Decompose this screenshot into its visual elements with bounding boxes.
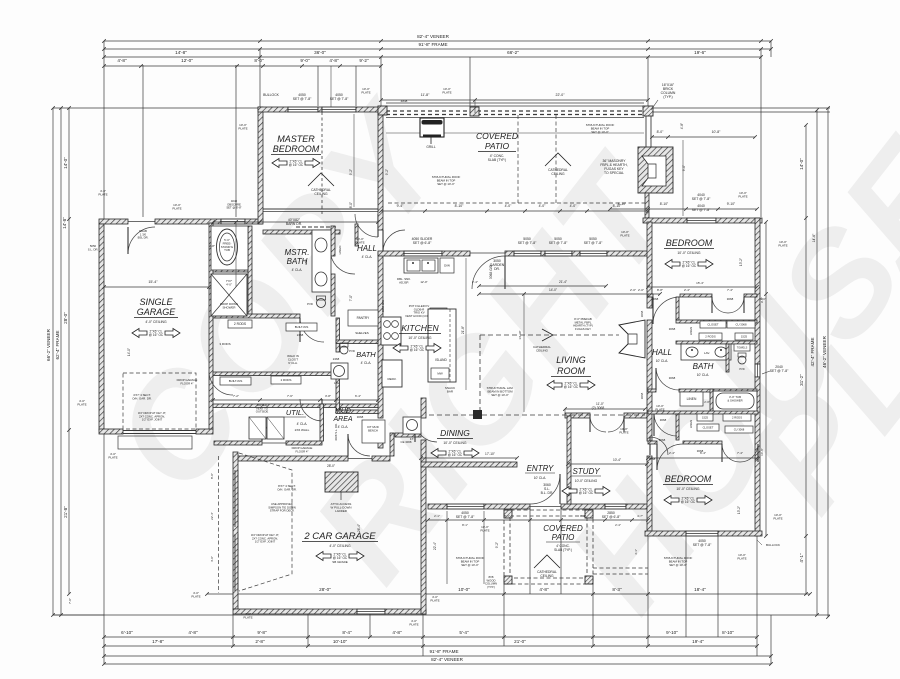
svg-text:SLAB (TYP.): SLAB (TYP.) [488, 158, 506, 162]
svg-text:S.L. DR.: S.L. DR. [88, 247, 99, 251]
svg-text:3 RODS: 3 RODS [219, 342, 230, 346]
svg-text:4'-8": 4'-8" [117, 58, 127, 63]
wall line: chimney chase east [650, 116, 652, 147]
svg-text:19'-4": 19'-4" [692, 639, 704, 644]
svg-text:8'-1": 8'-1" [504, 514, 510, 518]
window label 4050 front [456, 511, 475, 519]
extension line x260 [259, 49, 261, 107]
bottom dim line mid [102, 635, 759, 639]
svg-text:21'-8": 21'-8" [63, 506, 68, 518]
svg-text:BATH: BATH [356, 350, 376, 359]
plate label top left [172, 203, 181, 211]
plate label front [430, 595, 439, 603]
svg-text:PLATE: PLATE [108, 456, 117, 460]
top dim line 82'-4 veneer [102, 39, 773, 43]
ext stub b [330, 66, 332, 107]
svg-text:9'-2": 9'-2" [349, 169, 353, 175]
window label 5050 3 [584, 237, 603, 245]
wall: spine upper [378, 107, 383, 230]
ext line NE bedroom [682, 140, 684, 216]
wall: garage north seg2 [155, 219, 221, 224]
svg-text:4'-8": 4'-8" [329, 58, 339, 63]
bathtub: 3-0 tub and shower [713, 391, 757, 412]
svg-text:@ 16" OC: @ 16" OC [681, 500, 696, 504]
svg-text:@ 16" OC: @ 16" OC [564, 385, 579, 389]
door swing garden door [472, 256, 505, 289]
room label: 2 CAR GARAGE [302, 531, 378, 548]
svg-text:9'-10": 9'-10" [727, 202, 736, 206]
fireplace: living room prefab [619, 320, 645, 358]
svg-text:7'-6": 7'-6" [287, 394, 293, 398]
svg-text:2'-1": 2'-1" [434, 514, 440, 518]
svg-text:SET @ 10'-0": SET @ 10'-0" [461, 563, 478, 567]
barn door leaf dashed [296, 226, 336, 228]
svg-text:9'-2": 9'-2" [495, 542, 499, 548]
garden door head line [470, 252, 505, 254]
patio dashed joint 2 [555, 115, 557, 203]
svg-text:BULLOCK: BULLOCK [766, 543, 780, 547]
bathtub: master freestanding [211, 226, 248, 270]
room label: BEDROOM (SE) [663, 474, 713, 491]
svg-text:SET @ 10'-0": SET @ 10'-0" [669, 563, 686, 567]
svg-text:SET @ 7'-8": SET @ 7'-8" [330, 97, 349, 101]
label box: dishwasher [440, 258, 454, 273]
NE bedroom window dims [650, 135, 757, 139]
extension line x308 bottom [307, 614, 309, 646]
dim row dining south [419, 456, 519, 460]
washer and dryer [249, 417, 284, 439]
room label: STUDY [571, 467, 601, 483]
single garage width dim [102, 285, 211, 289]
wall: front wall seg2 [484, 504, 530, 509]
label: cathedral ceiling living [533, 345, 551, 353]
svg-text:4'-0": 4'-0" [226, 282, 232, 286]
svg-text:10'-0" CEILING: 10'-0" CEILING [408, 336, 432, 340]
label box: cu3068 NE [727, 321, 755, 328]
cathedral ceiling master [308, 173, 334, 196]
door swing mstr bath [300, 318, 324, 342]
room label: COVERED PATIO (top) [476, 131, 518, 162]
svg-text:SET @ 10'-0": SET @ 10'-0" [437, 182, 454, 186]
right dim line inner 766 [764, 220, 768, 538]
svg-text:TO SPECIAL: TO SPECIAL [604, 171, 624, 175]
porch side dashed 2 [593, 573, 648, 575]
label box: built-ins 2 [220, 377, 251, 385]
column: patio post mid [470, 107, 479, 116]
svg-text:8'-1": 8'-1" [462, 523, 468, 527]
window label 4050 SE [693, 539, 712, 547]
window 2040 east wall [755, 364, 760, 377]
wall: living south seg1 [565, 413, 590, 418]
svg-text:15'-4": 15'-4" [696, 281, 704, 285]
svg-text:BATH: BATH [693, 362, 714, 371]
column: porch post NE [585, 510, 593, 518]
svg-text:@ 16" OC: @ 16" OC [289, 163, 304, 167]
wall: closet row [213, 372, 336, 376]
wall: mud south east [395, 433, 421, 437]
svg-text:BSL DR.: BSL DR. [138, 236, 149, 240]
svg-text:4' CLA.: 4' CLA. [338, 425, 349, 429]
apron dashed rect single garage [123, 373, 196, 429]
svg-text:28'-0": 28'-0" [63, 312, 68, 324]
svg-text:@ 16" OC: @ 16" OC [579, 491, 594, 495]
wall: master north seg3 [356, 107, 383, 112]
lavatory: bath2 [331, 363, 348, 379]
svg-text:4' CLA.: 4' CLA. [362, 255, 373, 259]
ext stub c [564, 409, 566, 413]
svg-text:7'-0": 7'-0" [349, 295, 353, 301]
label: structural beam NE [586, 123, 615, 134]
window label 5050 1 [518, 237, 537, 245]
plate label right wing [655, 404, 664, 412]
column: structural post (dining) [473, 410, 482, 419]
room label: ENTRY [525, 464, 555, 480]
svg-text:& SHOWER: & SHOWER [727, 398, 742, 402]
toilet: master wc [317, 296, 326, 308]
extension line x143 [142, 65, 144, 217]
bottom dim line lower [102, 644, 759, 648]
wall: tub alcove south [213, 268, 248, 272]
svg-text:2'-8": 2'-8" [255, 639, 265, 644]
wall: NE bedroom south seg3 [744, 294, 757, 297]
svg-text:3068: 3068 [640, 392, 644, 399]
svg-text:28'-0": 28'-0" [319, 587, 331, 592]
svg-text:SINGLE: SINGLE [139, 297, 173, 307]
label: drop garage floor [177, 378, 198, 385]
patio top edge line 1 [386, 102, 644, 104]
cathedral direction chevron [542, 329, 553, 341]
extension line y615 left stub [53, 614, 104, 616]
wall: closet divider SE [676, 414, 679, 440]
window 4050 SE bedroom [686, 531, 718, 536]
garage stoop outline [118, 436, 192, 449]
extension line x561 bottom [560, 509, 562, 594]
svg-text:4'-0": 4'-0" [570, 204, 578, 208]
label: dbl sink [397, 277, 411, 284]
svg-text:4' CLA.: 4' CLA. [292, 268, 303, 272]
window label 2040 east [770, 365, 789, 373]
svg-text:SB GRADE: SB GRADE [332, 560, 348, 564]
dim row study width [566, 462, 649, 466]
window 4040 obscure (tub) [221, 219, 245, 224]
svg-text:3068: 3068 [640, 310, 644, 317]
svg-text:3'-8": 3'-8" [325, 394, 331, 398]
wall: chimney to bedroom connector [645, 193, 649, 218]
wall: east exterior lower [755, 377, 760, 536]
ext stub patio post [474, 100, 476, 113]
door swing SE bedroom [657, 444, 683, 470]
column: porch post SW [504, 576, 512, 584]
svg-text:91'-8" FRAME: 91'-8" FRAME [429, 649, 458, 654]
svg-text:LINEN: LINEN [689, 327, 693, 335]
svg-text:FLOOR 4": FLOOR 4" [181, 381, 194, 385]
bottom dim line 91'-8 frame [102, 654, 773, 658]
svg-text:28'-0": 28'-0" [327, 464, 335, 468]
mud-garage door head [348, 458, 372, 460]
wall: mud-garage jog [390, 433, 394, 456]
wall: SE bedroom south seg2 [718, 531, 762, 536]
left dim line 28'-0/31'-8 [67, 106, 71, 596]
svg-text:ADJSP.: ADJSP. [399, 280, 409, 284]
wall: NE bedroom south seg1 [648, 294, 653, 297]
svg-text:36'-0": 36'-0" [314, 50, 326, 55]
svg-text:14'-0": 14'-0" [127, 348, 131, 356]
svg-text:BARN DR.: BARN DR. [286, 222, 302, 226]
dim row SE bedroom [646, 456, 759, 460]
wall: mstr bath east lower [331, 274, 335, 316]
svg-text:4'-0": 4'-0" [210, 556, 214, 562]
label box: trash [430, 308, 447, 320]
closet door SE L [722, 444, 740, 462]
extension line x761 [760, 49, 762, 217]
label box: linen 2 [680, 392, 703, 406]
svg-text:22'-0": 22'-0" [556, 93, 566, 97]
column: 16x16 brick column [643, 106, 653, 116]
svg-text:10'-0" CEILING: 10'-0" CEILING [676, 487, 700, 491]
svg-text:CEILING: CEILING [551, 172, 565, 176]
extension line x686 bottom [685, 536, 687, 637]
svg-text:PLATE: PLATE [172, 207, 181, 211]
dim row front wall [426, 518, 650, 522]
wall: bath south seg1 [679, 389, 757, 392]
extension line x356 [355, 66, 357, 106]
svg-text:2'-4": 2'-4" [615, 523, 621, 527]
wall: bath2 west lower [336, 368, 340, 412]
label: apron note 2car [251, 533, 280, 544]
door swing bath right [656, 368, 679, 390]
svg-text:10'-0" CEILING: 10'-0" CEILING [575, 479, 598, 483]
wall: NE bedroom south seg2 [680, 294, 712, 297]
wall: single garage west [99, 224, 104, 430]
svg-text:PLATE: PLATE [480, 529, 489, 533]
svg-text:KITCHEN: KITCHEN [401, 323, 439, 333]
door swing dining-mud [415, 420, 437, 442]
NE bedroom dim row 2 [608, 207, 759, 211]
svg-text:8'-0": 8'-0" [210, 473, 214, 479]
svg-text:17'-8": 17'-8" [152, 639, 164, 644]
garage door W opening B2 [237, 534, 239, 591]
svg-text:1525: 1525 [702, 416, 708, 420]
svg-text:8'-8": 8'-8" [657, 288, 663, 292]
svg-text:ROOM: ROOM [557, 366, 586, 376]
svg-text:2 RODS: 2 RODS [705, 335, 716, 339]
svg-text:13'-2": 13'-2" [739, 258, 743, 266]
extension line x236 [235, 65, 237, 217]
svg-text:@ 16" OC: @ 16" OC [149, 333, 164, 337]
svg-text:82'-4" VENEER: 82'-4" VENEER [431, 657, 464, 662]
plate label garage bottom [243, 612, 252, 620]
svg-text:10'-8": 10'-8" [712, 130, 721, 134]
door swing master hall [355, 214, 378, 237]
wall: dining west upper [421, 398, 426, 418]
plate label patio [442, 87, 451, 95]
label: structural beam porch [456, 556, 485, 567]
svg-text:OUTSIDE: OUTSIDE [256, 410, 269, 414]
svg-text:9'-4": 9'-4" [397, 204, 405, 208]
wall: front wall seg4 [626, 504, 648, 509]
garage door W opening B1 [234, 534, 236, 591]
room label: COVERED PATIO (bottom) [543, 524, 583, 552]
svg-text:2'-4": 2'-4" [669, 451, 675, 455]
wall: kitchen north seg1 [378, 251, 404, 256]
leader bullock [757, 540, 762, 545]
right dim line 14'-0/41'-1 [804, 123, 808, 596]
svg-text:46'-2" VENEER: 46'-2" VENEER [822, 335, 827, 368]
top dim line segments [102, 55, 763, 59]
cathedral ceiling patio bottom [534, 555, 560, 578]
refrigerator [382, 360, 402, 387]
svg-text:10'-4": 10'-4" [613, 458, 621, 462]
wall: spine kitchen west [378, 252, 383, 418]
svg-text:4'-0": 4'-0" [505, 204, 513, 208]
room label: BEDROOM (NE) [664, 238, 714, 255]
plate label garage s [191, 591, 200, 599]
wall: 2car garage west [233, 452, 238, 609]
vanity counter: master bath [312, 230, 331, 292]
svg-text:PLATE: PLATE [773, 517, 782, 521]
svg-text:4'-8": 4'-8" [680, 123, 684, 129]
svg-text:5'-4": 5'-4" [459, 630, 469, 635]
plate label master W [238, 123, 247, 131]
svg-text:7'-4": 7'-4" [737, 451, 743, 455]
svg-text:2'-0": 2'-0" [638, 288, 644, 292]
svg-text:1525: 1525 [741, 335, 748, 339]
svg-text:10'-0" CEILING: 10'-0" CEILING [677, 251, 701, 255]
svg-text:(2) 3068: (2) 3068 [592, 406, 605, 410]
svg-text:7'-0": 7'-0" [68, 598, 72, 604]
svg-text:SHELVES: SHELVES [355, 331, 369, 335]
stretch arrows SE bedroom [664, 496, 712, 505]
svg-text:O/H. GAR. DR.: O/H. GAR. DR. [132, 396, 152, 400]
plate label porch [480, 525, 489, 533]
svg-text:8'-0": 8'-0" [349, 202, 353, 208]
stretch arrows study [562, 487, 610, 496]
svg-text:9' CLA.: 9' CLA. [288, 361, 298, 365]
plate label garage W [98, 189, 107, 197]
svg-text:7'-4": 7'-4" [727, 288, 733, 292]
wall: living north seg2 [572, 251, 580, 256]
svg-text:4'-1": 4'-1" [634, 549, 638, 555]
room label: UTIL [284, 408, 310, 432]
svg-text:6'-10": 6'-10" [121, 630, 133, 635]
svg-text:10'-0" CEILING: 10'-0" CEILING [443, 441, 467, 445]
wall: wc divider [726, 344, 729, 372]
svg-text:11'-0": 11'-0" [596, 402, 604, 406]
svg-text:2'-0": 2'-0" [704, 400, 710, 404]
label: barn door [286, 218, 302, 226]
right dim line 42'-4 frame [815, 108, 819, 617]
svg-text:COVERED: COVERED [543, 524, 583, 533]
wall: single garage south seg2 [196, 429, 213, 434]
label box: 2 rods master [228, 320, 252, 328]
svg-text:O/H. GAR. DR.: O/H. GAR. DR. [277, 487, 297, 491]
patio slab edge dashed [388, 202, 645, 204]
label box: 2 rods 2 [271, 376, 301, 384]
svg-text:4' CLA.: 4' CLA. [361, 361, 372, 365]
svg-text:91'-8" FRAME: 91'-8" FRAME [418, 42, 447, 47]
stretch arrows dining [431, 449, 479, 458]
svg-text:PLATE: PLATE [430, 599, 439, 603]
dim line NE bedroom south [646, 285, 759, 289]
svg-text:2'-4": 2'-4" [472, 280, 478, 284]
porch walk line 2 [483, 511, 485, 584]
patio dashed joint 1 [517, 115, 519, 203]
window label 4040 [692, 204, 711, 212]
label box: 2 rods NE [699, 333, 722, 340]
label box: microwave [431, 368, 449, 379]
fireplace: 36in masonry fbpl [638, 147, 673, 193]
room label: BATH (2) [356, 350, 376, 365]
svg-text:PLATE: PLATE [355, 241, 364, 245]
window label 2850 front [602, 511, 621, 519]
svg-text:42'-4" FRAME: 42'-4" FRAME [810, 337, 815, 366]
label box: built-ins 1 [286, 323, 317, 331]
label: pot filler note [405, 304, 433, 318]
label box: 1525 SE [697, 414, 713, 421]
bottom dim line 82'-4 veneer [102, 662, 773, 666]
svg-text:PLATE: PLATE [442, 91, 451, 95]
wall line: chimney chase west [645, 116, 647, 147]
label: masonry fireplace [600, 159, 627, 175]
left dim line 66'-2 veneer [51, 106, 55, 617]
svg-text:17'-10": 17'-10" [485, 452, 495, 456]
label: walk-in closet [287, 354, 299, 365]
wall: tub-shower column east [248, 226, 252, 316]
wall: tub room west [710, 389, 713, 412]
svg-text:8'-10": 8'-10" [660, 202, 669, 206]
apron dashed edge W [218, 456, 220, 593]
svg-text:DR.: DR. [494, 267, 500, 271]
porch walk line 1 [446, 511, 448, 584]
svg-text:LINEN: LINEN [338, 246, 342, 255]
svg-text:PLATE: PLATE [191, 595, 200, 599]
svg-text:BULLOCK: BULLOCK [263, 93, 280, 97]
range: cooktop 4 burners [381, 317, 401, 345]
door swing util north [300, 399, 322, 421]
wall: NE bedroom north seg1 [643, 218, 687, 223]
beam dashed vertical [479, 335, 481, 410]
svg-text:10'-0": 10'-0" [458, 587, 470, 592]
svg-text:(TYP.): (TYP.) [663, 95, 672, 99]
svg-text:PLATE: PLATE [778, 244, 787, 248]
room label: MSTR BATH [285, 248, 310, 272]
wall: master north seg2 [318, 107, 322, 112]
svg-text:14'-8": 14'-8" [760, 448, 764, 456]
wall: bath2 north [336, 340, 378, 344]
svg-text:21'-8": 21'-8" [461, 326, 465, 334]
svg-text:PVD: PVD [349, 349, 355, 353]
svg-text:14'-8": 14'-8" [62, 217, 67, 229]
extension line x593 bottom [592, 584, 594, 646]
svg-text:3068: 3068 [652, 297, 659, 301]
wall: east exterior upper [755, 218, 760, 364]
svg-text:SET @ 7'-8": SET @ 7'-8" [770, 369, 789, 373]
svg-text:LINEN: LINEN [687, 397, 697, 401]
extension line left outer top [103, 41, 105, 219]
window label 4050 [293, 93, 312, 101]
svg-text:10' CLA.: 10' CLA. [656, 359, 669, 363]
label: shower size [226, 279, 233, 286]
svg-text:4'-1": 4'-1" [799, 553, 804, 563]
column: porch post NW [504, 510, 512, 518]
wall: kitchen north seg2 [442, 251, 470, 256]
patio column dim line [379, 209, 650, 213]
util door head [262, 442, 286, 444]
room label: KITCHEN [399, 323, 441, 340]
svg-text:LINEN: LINEN [689, 420, 693, 428]
svg-text:SHOWER: SHOWER [222, 305, 235, 309]
window 5050 living 3 [580, 251, 607, 256]
